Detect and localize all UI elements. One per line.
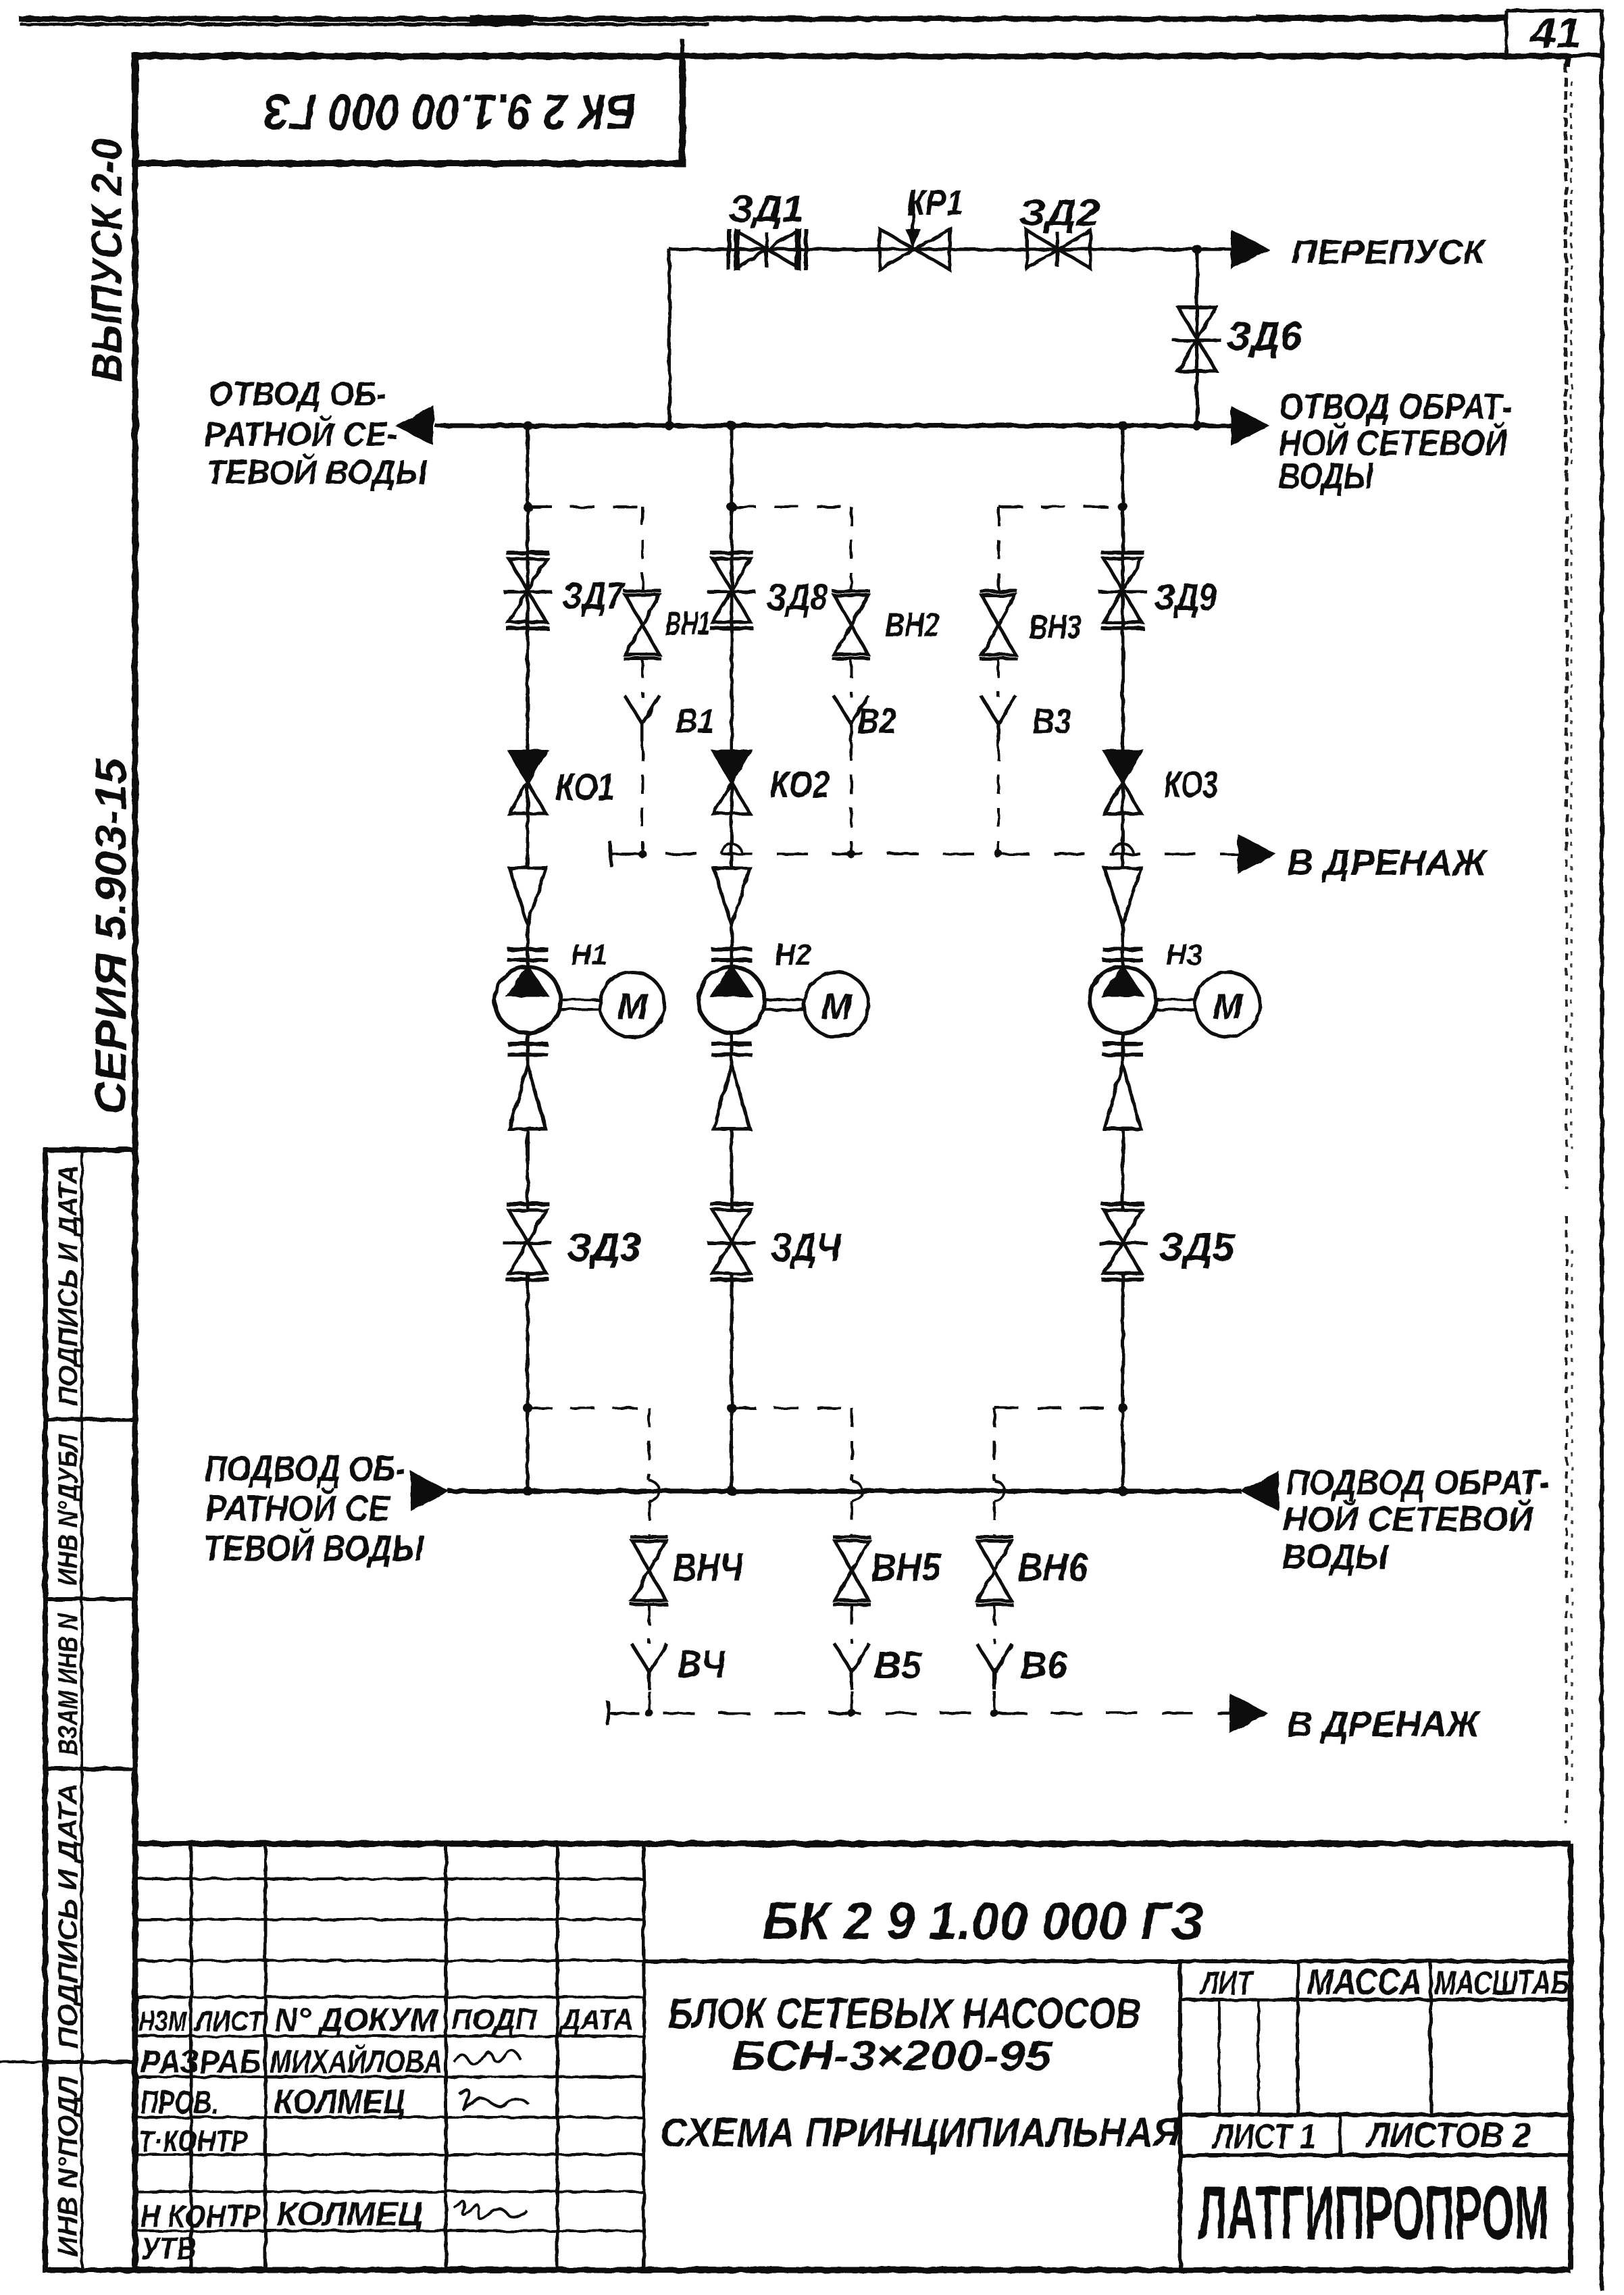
flange pair below pump Н3 — [1102, 1042, 1143, 1046]
node: header junctions — [523, 421, 532, 430]
lit/massa/masshtab table — [1178, 1961, 1182, 2270]
wire: branch 3 lower vertical — [1121, 1273, 1125, 1491]
svg-text:ЗД8: ЗД8 — [766, 576, 829, 618]
svg-text:ЛИТ: ЛИТ — [1200, 1964, 1255, 2002]
wire: ZD6 drop — [1196, 249, 1199, 426]
svg-text:Т·КОНТР: Т·КОНТР — [138, 2125, 249, 2158]
reducer above pump Н2 — [713, 868, 750, 925]
reducer above pump Н3 — [1105, 868, 1141, 925]
wire: dashed below ВН6 — [993, 1606, 996, 1644]
svg-text:БЛОК СЕТЕВЫХ НАСОСОВ: БЛОК СЕТЕВЫХ НАСОСОВ — [668, 1989, 1141, 2038]
svg-text:ЗД5: ЗД5 — [1159, 1226, 1235, 1269]
flange pair below pump Н2 — [711, 1042, 752, 1046]
pump Н1 — [494, 967, 561, 1033]
svg-text:ВЗАМ ИНВ N: ВЗАМ ИНВ N — [53, 1613, 83, 1755]
svg-text:НЗМ: НЗМ — [138, 2005, 187, 2037]
svg-text:Н1: Н1 — [571, 938, 607, 972]
wire: branch 1 pump suction — [526, 925, 530, 967]
title block left table grid — [135, 1877, 644, 1880]
svg-text:РАЗРАБ: РАЗРАБ — [141, 2044, 261, 2080]
wire: pump Н2 discharge — [730, 1033, 734, 1065]
node: drain taps — [638, 850, 646, 858]
check valve КО1 — [509, 751, 546, 782]
svg-text:КОЛМЕЦ: КОЛМЕЦ — [276, 2195, 423, 2233]
node: branch 3 drain tap — [1118, 502, 1127, 511]
page number box top right — [1506, 9, 1601, 13]
gate valve ЗД7 — [509, 559, 547, 590]
gate valve ZD5 — [1104, 1210, 1142, 1242]
signature n kontr — [454, 2201, 527, 2219]
flange pair below pump Н1 — [507, 1042, 548, 1046]
wire: upper drain dashed line — [611, 853, 1238, 855]
node: bypass/ZD6 junction — [1192, 245, 1202, 254]
svg-text:ЛИСТ: ЛИСТ — [193, 2005, 265, 2037]
svg-text:ВН5: ВН5 — [871, 1546, 942, 1590]
valve ВН1 — [626, 595, 659, 625]
wire: bypass left drop — [668, 249, 671, 426]
arrow: podvod right — [1242, 1472, 1278, 1510]
drain funnel ВЧ — [632, 1644, 649, 1672]
svg-text:М: М — [821, 986, 853, 1027]
wire: branch 2 lower vertical — [730, 1273, 734, 1491]
valve ВН2 — [834, 595, 868, 625]
svg-text:ЗДЧ: ЗДЧ — [771, 1226, 842, 1269]
svg-text:В2: В2 — [857, 702, 896, 741]
wire: dashed below ВЧ — [648, 1691, 651, 1713]
svg-text:ЛИСТОВ 2: ЛИСТОВ 2 — [1365, 2116, 1531, 2155]
wire: dashed below В3 — [997, 742, 1000, 854]
check valve КО3 — [1105, 751, 1141, 782]
shaft pump Н2 to motor — [765, 999, 804, 1001]
svg-text:ИНВ N°ПОДЛ: ИНВ N°ПОДЛ — [53, 2075, 83, 2256]
svg-text:ЗД2: ЗД2 — [1019, 191, 1100, 234]
flange pair above pump Н3 — [1102, 947, 1143, 951]
svg-text:ЛАТГИПРОПРОМ: ЛАТГИПРОПРОМ — [1198, 2171, 1549, 2255]
arrow: v drenazh lower — [1230, 1694, 1267, 1732]
drain funnel В6 — [977, 1644, 994, 1672]
arrow: otvod right — [1232, 407, 1268, 445]
gate valve ZD4 — [713, 1210, 751, 1242]
signature razrab — [454, 2050, 520, 2065]
node: branch 2 drain tap — [727, 502, 736, 511]
arrow: v drenazh upper — [1238, 835, 1275, 873]
svg-text:МАСШТАБ: МАСШТАБ — [1434, 1964, 1569, 2002]
pump Н2 — [699, 967, 765, 1033]
stamp box (upside-down document number) — [135, 56, 682, 163]
svg-text:ВНЧ: ВНЧ — [673, 1546, 744, 1590]
gate valve ZD1 — [736, 230, 767, 268]
valve ВН3 — [982, 595, 1015, 625]
svg-text:Н2: Н2 — [775, 938, 812, 972]
valve ВН6 — [978, 1541, 1011, 1571]
drain funnel В5 — [834, 1644, 852, 1672]
svg-text:КОЛМЕЦ: КОЛМЕЦ — [274, 2083, 405, 2121]
diffuser below pump Н2 — [713, 1065, 750, 1129]
motor M of pump Н2 — [804, 972, 869, 1037]
wire: drain tap dashed corner branch 3 — [998, 505, 1123, 508]
svg-text:КО1: КО1 — [555, 765, 615, 808]
svg-text:НОЙ СЕТЕВОЙ: НОЙ СЕТЕВОЙ — [1283, 1498, 1534, 1539]
motor M of pump Н1 — [600, 972, 665, 1037]
wire: lower drain dashed corner branch 3 — [994, 1407, 1123, 1409]
drain funnel В3 — [981, 696, 998, 724]
svg-text:МИХАЙЛОВА: МИХАЙЛОВА — [270, 2043, 442, 2080]
wire: branch 2 pump suction — [730, 925, 734, 967]
wire: return water header (otvod) — [435, 424, 1231, 428]
node: branch 3 lower drain tap — [1118, 1403, 1127, 1413]
wire: supply water header (podvod) — [448, 1489, 1242, 1494]
wire: branch 3 pump suction — [1121, 925, 1125, 967]
control valve KR1 — [880, 229, 915, 270]
wire: dashed below ВН5 — [851, 1606, 853, 1644]
svg-text:М: М — [617, 986, 649, 1027]
wire: dashed below В6 — [993, 1691, 996, 1713]
check valve КО2 — [713, 751, 750, 782]
arrow: perepusk outlet — [1232, 230, 1268, 268]
svg-text:N° ДОКУМ: N° ДОКУМ — [274, 2002, 438, 2038]
signature prov — [459, 2090, 528, 2109]
svg-text:УТВ: УТВ — [141, 2231, 197, 2266]
svg-text:ПЕРЕПУСК: ПЕРЕПУСК — [1292, 233, 1487, 271]
flange pair above pump Н1 — [507, 947, 548, 951]
wire: lower drain dashed corner branch 2 — [732, 1407, 852, 1409]
sheet top edge scan line — [19, 16, 1508, 22]
svg-text:ВОДЫ: ВОДЫ — [1279, 456, 1374, 497]
svg-text:ЗД9: ЗД9 — [1154, 576, 1217, 618]
svg-text:В ДРЕНАЖ: В ДРЕНАЖ — [1287, 842, 1488, 883]
diffuser below pump Н3 — [1105, 1065, 1141, 1129]
hop: drain line over header branch 2 — [852, 1481, 862, 1501]
svg-text:В5: В5 — [874, 1644, 922, 1686]
svg-text:БК 2 9.1.00 000 ГЗ: БК 2 9.1.00 000 ГЗ — [263, 84, 636, 140]
terminator: lower drain left end — [607, 1701, 610, 1725]
svg-text:ВН6: ВН6 — [1017, 1546, 1088, 1590]
svg-text:ЛИСТ 1: ЛИСТ 1 — [1211, 2117, 1316, 2157]
wire: branch 3 upper vertical — [1121, 426, 1125, 868]
diffuser below pump Н1 — [509, 1065, 546, 1129]
svg-text:В3: В3 — [1032, 702, 1071, 741]
wire: branch 1 to gate valve — [526, 1129, 530, 1211]
svg-text:РАТНОЙ СЕ: РАТНОЙ СЕ — [205, 1487, 391, 1529]
sheet right edge line — [1600, 9, 1604, 2290]
wire: dashed below ВНЧ — [648, 1606, 651, 1644]
svg-text:ПРОВ.: ПРОВ. — [141, 2085, 218, 2121]
svg-text:ОТВОД ОБ-: ОТВОД ОБ- — [209, 375, 386, 413]
svg-text:РАТНОЙ СЕ-: РАТНОЙ СЕ- — [204, 415, 398, 453]
left stamp column frame — [45, 1150, 135, 2270]
wire: dashed below ВН3 — [997, 659, 1000, 697]
gate valve ЗД9 — [1104, 559, 1142, 590]
terminator: upper drain left end — [609, 842, 613, 866]
svg-text:ЗД6: ЗД6 — [1226, 313, 1302, 359]
svg-text:Н3: Н3 — [1166, 938, 1202, 972]
wire: lower drain dashed corner branch 1 — [528, 1407, 649, 1409]
svg-text:В ДРЕНАЖ: В ДРЕНАЖ — [1287, 1704, 1481, 1744]
drain funnel В2 — [834, 696, 851, 724]
motor M of pump Н3 — [1195, 972, 1260, 1037]
svg-text:ВЫПУСК 2-0: ВЫПУСК 2-0 — [82, 138, 131, 382]
title block outer — [135, 1841, 1571, 1847]
svg-text:ВОДЫ: ВОДЫ — [1282, 1538, 1389, 1577]
svg-text:ВН1: ВН1 — [665, 605, 711, 642]
svg-text:ТЕВОЙ ВОДЫ: ТЕВОЙ ВОДЫ — [206, 453, 428, 491]
node: branch 1 drain tap — [523, 502, 532, 511]
svg-text:ВЧ: ВЧ — [678, 1642, 726, 1685]
node: header lower junctions — [523, 1486, 532, 1496]
svg-text:Н КОНТР: Н КОНТР — [141, 2198, 261, 2234]
svg-text:ПОДПИСЬ И ДАТА: ПОДПИСЬ И ДАТА — [53, 1784, 83, 2048]
svg-text:ЗД7: ЗД7 — [562, 574, 626, 617]
wire: pump Н3 discharge — [1121, 1033, 1125, 1065]
svg-text:ПОДВОД ОБ-: ПОДВОД ОБ- — [205, 1448, 405, 1489]
list row — [1180, 2153, 1571, 2157]
shaft pump Н1 to motor — [561, 999, 600, 1001]
wire: dashed below В5 — [851, 1691, 853, 1713]
svg-text:ТЕВОЙ ВОДЫ: ТЕВОЙ ВОДЫ — [203, 1527, 424, 1569]
node: lower drain taps — [645, 1709, 653, 1717]
wire: lower drain dashed line — [608, 1712, 1229, 1715]
svg-text:ИНВ N°ДУБЛ: ИНВ N°ДУБЛ — [53, 1434, 83, 1586]
wire: drain tap dashed corner branch 1 — [528, 505, 642, 508]
gate valve ZD3 — [509, 1210, 547, 1242]
valve ВН5 — [835, 1541, 869, 1571]
gate valve ZD6 — [1178, 307, 1216, 339]
gate valve ЗД8 — [713, 559, 751, 590]
hop: drain line over header branch 1 — [649, 1481, 659, 1501]
svg-text:ПОДП: ПОДП — [451, 2003, 537, 2036]
wire: branch 3 to gate valve — [1121, 1129, 1125, 1211]
hop: drain over branch2 — [721, 844, 742, 854]
svg-text:В6: В6 — [1020, 1644, 1068, 1686]
arrow: podvod left — [411, 1472, 448, 1510]
svg-text:ПОДВОД ОБРАТ-: ПОДВОД ОБРАТ- — [1286, 1463, 1550, 1503]
svg-text:КР1: КР1 — [907, 182, 963, 223]
svg-text:КО3: КО3 — [1164, 763, 1218, 805]
svg-text:ПОДПИСЬ И ДАТА: ПОДПИСЬ И ДАТА — [53, 1165, 83, 1406]
reducer above pump Н1 — [509, 868, 546, 925]
wire: dashed below ВН1 — [641, 659, 644, 697]
drawing frame — [135, 53, 1571, 59]
svg-text:КО2: КО2 — [770, 763, 830, 805]
flange pair above pump Н2 — [711, 947, 752, 951]
title block right part — [644, 1959, 1571, 1963]
svg-text:ЗД3: ЗД3 — [567, 1226, 641, 1269]
wire: branch 2 to gate valve — [730, 1129, 734, 1211]
svg-text:ОТВОД ОБРАТ-: ОТВОД ОБРАТ- — [1279, 386, 1512, 427]
svg-text:СЕРИЯ 5.903-15: СЕРИЯ 5.903-15 — [86, 758, 135, 1115]
hop: drain line over header branch 3 — [994, 1481, 1005, 1501]
drain funnel В1 — [625, 696, 642, 724]
svg-text:МАССА: МАССА — [1307, 1962, 1422, 2002]
fold mark left margin — [0, 2061, 45, 2063]
hop: drain over branch3 — [1113, 844, 1133, 854]
svg-text:СХЕМА ПРИНЦИПИАЛЬНАЯ: СХЕМА ПРИНЦИПИАЛЬНАЯ — [660, 2110, 1181, 2155]
svg-text:БК 2 9 1.00 000 ГЗ: БК 2 9 1.00 000 ГЗ — [763, 1891, 1204, 1950]
svg-text:ВН2: ВН2 — [885, 606, 940, 644]
wire: pump Н1 discharge — [526, 1033, 530, 1065]
svg-text:41: 41 — [1529, 10, 1581, 57]
svg-text:БСН-3×200-95: БСН-3×200-95 — [732, 2033, 1053, 2079]
pump Н3 — [1090, 967, 1156, 1033]
wire: dashed below ВН2 — [850, 659, 853, 697]
right margin microtext noise — [1565, 64, 1568, 473]
wire: branch 1 upper vertical — [526, 426, 530, 868]
shaft pump Н3 to motor — [1156, 999, 1195, 1001]
svg-text:ВН3: ВН3 — [1029, 608, 1082, 646]
wire: dashed below В2 — [850, 742, 853, 854]
arrow: otvod left — [397, 407, 433, 445]
svg-text:М: М — [1213, 986, 1244, 1027]
wire: branch 1 lower vertical — [526, 1273, 530, 1491]
gate valve ZD2 — [1027, 230, 1059, 268]
wire: drain tap dashed corner branch 2 — [732, 505, 851, 508]
svg-text:ЗД1: ЗД1 — [728, 187, 804, 230]
node: branch 1 lower drain tap — [523, 1403, 532, 1413]
svg-text:В1: В1 — [676, 702, 715, 741]
wire: branch 2 upper vertical — [730, 426, 734, 868]
node: branch 2 lower drain tap — [727, 1403, 736, 1413]
wire: bypass line horizontal — [669, 248, 1231, 251]
svg-text:ДАТА: ДАТА — [558, 2003, 634, 2036]
valve ВНЧ — [632, 1541, 666, 1571]
wire: dashed below В1 — [641, 742, 644, 854]
